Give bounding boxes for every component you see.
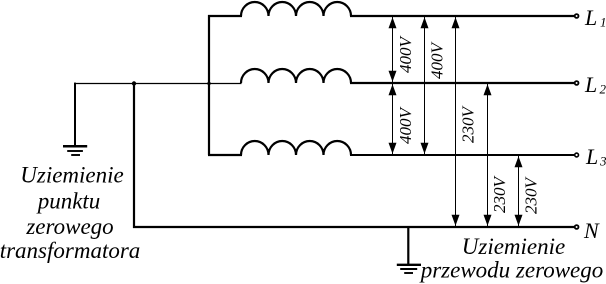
svg-text:1: 1 xyxy=(600,15,606,30)
dimension arrow L1-L2 400V xyxy=(389,17,397,82)
wire L2 right xyxy=(350,82,574,84)
wire N line xyxy=(133,226,574,228)
svg-text:punktu: punktu xyxy=(36,188,101,213)
transformer winding L3 xyxy=(241,141,351,155)
svg-text:L: L xyxy=(584,5,597,30)
svg-text:400V: 400V xyxy=(427,40,446,79)
svg-text:L: L xyxy=(585,144,598,169)
node star point junction xyxy=(132,81,136,85)
transformer winding L1 xyxy=(241,2,351,16)
svg-text:przewodu zerowego: przewodu zerowego xyxy=(419,257,604,282)
terminal L1 xyxy=(575,14,579,18)
svg-text:230V: 230V xyxy=(490,174,509,213)
ground neutral conductor xyxy=(397,265,421,273)
svg-text:400V: 400V xyxy=(396,105,415,144)
svg-text:3: 3 xyxy=(599,154,606,169)
terminal N xyxy=(575,225,579,229)
wire earthing drop left xyxy=(74,83,76,146)
svg-text:transformatora: transformatora xyxy=(0,238,140,263)
svg-text:230V: 230V xyxy=(459,104,478,143)
dimension arrow L2-L3 400V xyxy=(389,84,397,154)
svg-text:230V: 230V xyxy=(521,175,540,214)
star-point bus xyxy=(208,15,210,155)
dimension arrow L3-N 230V xyxy=(515,156,523,226)
svg-text:Uziemienie: Uziemienie xyxy=(462,234,565,259)
dimension arrow L1-N 230V xyxy=(452,17,460,226)
wire L1 right xyxy=(350,15,574,17)
transformer winding L2 xyxy=(241,69,351,83)
wire neutral link (thin) xyxy=(74,83,242,85)
svg-text:zerowego: zerowego xyxy=(25,214,113,239)
svg-text:Uziemienie: Uziemienie xyxy=(20,163,123,188)
svg-text:L: L xyxy=(584,72,597,97)
svg-text:N: N xyxy=(583,218,600,243)
wire L3 right xyxy=(350,154,574,156)
ground transformer star point xyxy=(63,146,87,155)
wire L1 left xyxy=(208,15,242,17)
wire neutral drop xyxy=(133,83,135,228)
terminal L2 xyxy=(575,81,579,85)
svg-text:400V: 400V xyxy=(396,34,415,73)
wire L3 left xyxy=(208,154,242,156)
label earthing of transformer star point xyxy=(0,163,140,264)
dimension arrow L1-L3 400V xyxy=(421,17,429,154)
svg-text:2: 2 xyxy=(600,82,606,97)
label earthing of neutral conductor xyxy=(419,234,604,282)
node bus crossing xyxy=(207,82,210,85)
wire earthing drop N xyxy=(407,226,409,265)
dimension arrow L2-N 230V xyxy=(484,84,492,226)
terminal L3 xyxy=(575,153,579,157)
